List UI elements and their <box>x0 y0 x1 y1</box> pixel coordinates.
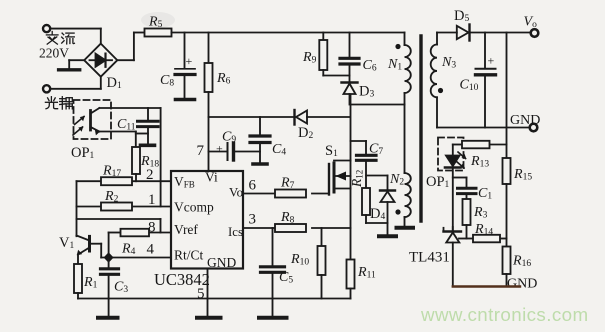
wire Vcomp line <box>77 206 172 208</box>
capacitor C8 <box>175 33 195 100</box>
wire secondary top <box>437 32 457 34</box>
wire opto collector to Vcomp <box>99 108 160 207</box>
resistor R9 <box>319 33 349 76</box>
wire Vref line <box>109 233 171 258</box>
label R9 <box>302 50 317 66</box>
resistor R7 <box>275 190 306 198</box>
svg-text:4: 4 <box>147 242 155 258</box>
output terminal Vo <box>531 29 539 37</box>
capacitor C7 <box>351 141 377 188</box>
svg-text:GND: GND <box>507 277 537 292</box>
ground under C3 <box>98 299 118 318</box>
label GND bottom right <box>507 277 537 292</box>
label R18 <box>140 154 159 170</box>
svg-text:7: 7 <box>197 143 205 159</box>
optocoupler OP1 phototransistor dashed box <box>74 100 112 139</box>
optocoupler OP1 LED dashed box <box>438 138 464 171</box>
label pin 4 <box>147 242 155 258</box>
svg-text:Vcomp: Vcomp <box>174 200 214 215</box>
svg-text:6: 6 <box>249 178 257 194</box>
label pin 2 <box>146 167 154 183</box>
opto light arrows <box>73 116 85 135</box>
resistor R15 <box>503 158 511 247</box>
wire bottom right rail <box>453 285 520 287</box>
svg-text:Vi: Vi <box>205 170 218 185</box>
resistor R8 <box>275 224 306 232</box>
ground under IC pin5 <box>197 269 221 318</box>
wire secondary ground <box>437 127 529 129</box>
wire Vref jumper <box>77 219 161 233</box>
label C5 <box>279 270 293 286</box>
label pin 1 <box>148 192 156 208</box>
svg-text:Vo: Vo <box>229 186 243 200</box>
capacitor C4 <box>250 117 270 164</box>
label C3 <box>114 280 128 296</box>
wire R14 line <box>459 238 507 240</box>
resistor R2 <box>101 203 132 211</box>
label N1 <box>387 57 402 73</box>
svg-text:UC3842: UC3842 <box>154 270 210 289</box>
label R12 (rotated) <box>349 170 365 188</box>
label R1 <box>83 275 98 291</box>
label Vo <box>524 15 538 31</box>
transformer core <box>419 36 422 221</box>
MOSFET S1 <box>329 161 351 195</box>
wire Vo sense vertical <box>506 33 508 159</box>
label C6 <box>363 58 377 74</box>
label C1 <box>478 186 492 202</box>
diode D4 <box>366 176 395 235</box>
label R13 <box>470 154 489 170</box>
svg-text:3: 3 <box>249 212 257 228</box>
label C7 <box>369 142 383 158</box>
wire top rail <box>172 32 405 34</box>
wire R13 line <box>453 145 507 156</box>
AC input terminal top <box>43 25 101 44</box>
transformer winding N2 <box>405 105 411 227</box>
GND terminal <box>530 124 538 132</box>
label C4 <box>272 142 286 158</box>
transformer winding N1 <box>405 33 411 105</box>
label pin 3 <box>249 212 257 228</box>
diode D5 <box>457 25 530 41</box>
label C11 <box>117 117 136 133</box>
capacitor C5 <box>259 228 287 318</box>
label D2 <box>298 125 313 141</box>
wire drain vertical <box>350 95 352 161</box>
wire RtCt line <box>101 257 171 259</box>
label C8 <box>160 73 174 89</box>
流 strokes <box>62 33 75 44</box>
wire opto emitter <box>99 132 135 148</box>
label pin 5 <box>197 286 205 302</box>
optocoupler OP1 phototransistor <box>91 108 100 135</box>
resistor R5 <box>141 12 175 37</box>
label N3 <box>441 55 456 71</box>
label R16 <box>512 254 531 270</box>
label D5 <box>454 8 469 24</box>
wire Vo to gate <box>243 193 329 195</box>
交 strokes <box>46 32 58 45</box>
IC UC3842 box <box>171 171 243 269</box>
chassis ground bar at AC input <box>59 60 85 70</box>
label C10 <box>460 78 479 94</box>
resistor R1 <box>74 264 82 299</box>
svg-text:www.cntronics.com: www.cntronics.com <box>420 304 589 325</box>
bridge rectifier D1 <box>84 44 117 77</box>
label OP1 <box>71 145 95 161</box>
resistor R10 <box>318 228 326 299</box>
N1 polarity dot <box>395 44 400 49</box>
label TL431 <box>409 250 450 266</box>
transistor V1 <box>77 236 102 265</box>
resistor R11 <box>347 189 355 299</box>
ground under N2 <box>397 226 414 230</box>
label D3 <box>359 84 374 100</box>
label 光耦 <box>45 97 72 109</box>
svg-text:GND: GND <box>207 255 236 270</box>
label R8 <box>280 210 295 226</box>
diode D2 <box>295 110 351 125</box>
svg-text:+: + <box>488 54 495 68</box>
label V1 <box>59 235 74 251</box>
wire Ics line <box>243 227 351 229</box>
capacitor C9 <box>209 142 261 161</box>
label R4 <box>121 242 136 258</box>
resistor R18 <box>132 147 140 181</box>
svg-text:+: + <box>186 54 193 68</box>
resistor R14 <box>473 235 500 243</box>
N3 polarity dot <box>438 88 443 93</box>
label R6 <box>216 71 231 87</box>
resistor R4 <box>121 229 150 237</box>
label R14 <box>474 222 493 238</box>
resistor R17 <box>101 177 132 185</box>
svg-text:Vref: Vref <box>174 222 198 237</box>
capacitor C10 <box>476 33 496 128</box>
label UC3842 <box>154 270 210 289</box>
label GND top <box>510 113 540 128</box>
svg-text:TL431: TL431 <box>409 250 450 266</box>
capacitor C11 <box>136 108 158 145</box>
AC input terminal bottom <box>43 77 101 93</box>
label R15 <box>513 167 532 183</box>
label D1 <box>107 75 122 91</box>
label R2 <box>104 189 119 205</box>
wire snubber node <box>351 104 405 106</box>
resistor R3 <box>463 199 471 239</box>
capacitor C1 <box>453 178 476 200</box>
耦 strokes <box>60 97 73 109</box>
光 strokes <box>45 97 57 109</box>
diode D3 <box>342 83 358 105</box>
resistor R6 <box>205 33 213 172</box>
label R11 <box>357 265 376 281</box>
resistor R13 <box>462 141 490 149</box>
LED arrows <box>457 152 467 169</box>
label pin 8 <box>148 220 156 236</box>
ground under D4 R12 <box>379 234 396 238</box>
wire left bus vertical <box>76 181 78 236</box>
resistor R16 <box>503 247 511 287</box>
label S1 <box>325 143 338 159</box>
label 交流 220V <box>46 32 74 45</box>
wire Vcc node <box>209 116 294 118</box>
label R3 <box>473 205 488 221</box>
svg-text:Rt/Ct: Rt/Ct <box>174 248 204 263</box>
resistor R12 <box>362 188 388 223</box>
TL431 <box>444 227 462 286</box>
label R10 <box>290 252 309 268</box>
label R7 <box>280 176 295 192</box>
label N2 <box>389 172 404 188</box>
svg-text:220V: 220V <box>39 46 69 61</box>
label D4 <box>370 206 385 222</box>
label R17 <box>102 164 121 180</box>
svg-text:Ics: Ics <box>228 225 243 239</box>
wire bottom rail <box>78 298 351 300</box>
transformer winding N3 <box>431 33 437 128</box>
label OP1 right <box>426 174 450 190</box>
label pin 7 <box>197 143 205 159</box>
wire VFB line <box>77 180 172 182</box>
capacitor C6 <box>340 33 359 82</box>
wire bridge output to rail <box>117 33 144 61</box>
label R5 <box>148 15 163 31</box>
optocoupler LED <box>445 156 461 233</box>
N2 polarity dot <box>395 209 400 214</box>
junction node <box>104 252 114 262</box>
label pin 6 <box>249 178 257 194</box>
IC pin labels <box>174 170 243 271</box>
capacitor C3 <box>101 258 119 299</box>
svg-text:GND: GND <box>510 113 540 128</box>
label C9 <box>222 130 236 146</box>
